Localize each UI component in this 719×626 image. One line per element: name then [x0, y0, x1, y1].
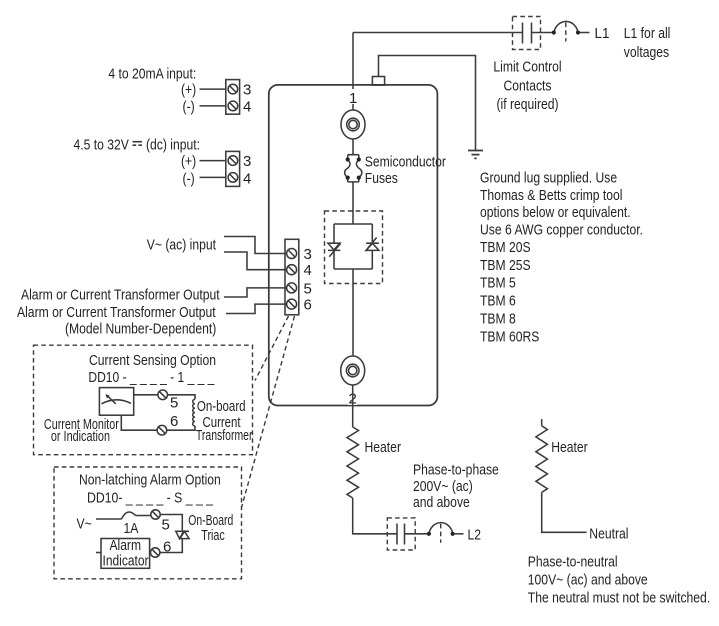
screw 6 [287, 299, 297, 309]
wire screw5 to triac [160, 515, 182, 532]
svg-text:Fuses: Fuses [365, 170, 398, 187]
svg-text:Heater: Heater [365, 439, 402, 456]
wire fuses to SCR [352, 182, 354, 224]
svg-text:DD10- _ _ _ _ - S _ _ _: DD10- _ _ _ _ - S _ _ _ [87, 490, 214, 507]
wire screw5 to coil [168, 395, 196, 400]
wire fuse to screw5 [136, 515, 151, 517]
svg-text:(+): (+) [181, 153, 196, 170]
wire output to screw5 [224, 288, 287, 297]
right heater stub [541, 419, 543, 426]
wire to L1 [580, 32, 590, 34]
contact plates [511, 23, 553, 44]
svg-text:TBM 6: TBM 6 [480, 293, 516, 310]
meter arc [102, 400, 132, 404]
svg-text:L1: L1 [595, 25, 610, 42]
input block 1 [226, 80, 240, 115]
wire heater to L2 contact [353, 498, 388, 534]
semiconductor fuses [345, 155, 362, 182]
wire L1 top [353, 33, 511, 111]
input block 2 [226, 151, 240, 186]
terminal 2 label [348, 391, 357, 405]
dashed leader to current sensing box [255, 316, 289, 381]
svg-text:Semiconductor: Semiconductor [365, 153, 446, 170]
node dot [552, 30, 556, 34]
fuse 1A [122, 512, 136, 519]
svg-text:3: 3 [243, 153, 251, 170]
ground tab on box [372, 77, 384, 86]
svg-text:options below or equivalent.: options below or equivalent. [480, 204, 631, 221]
svg-text:Alarm: Alarm [110, 537, 142, 554]
svg-text:(-): (-) [183, 98, 195, 115]
wire to L2 [455, 533, 464, 535]
svg-text:4 to 20mA input:: 4 to 20mA input: [108, 66, 196, 83]
svg-text:Phase-to-phase: Phase-to-phase [413, 462, 499, 479]
svg-text:(-): (-) [183, 170, 195, 187]
svg-text:DD10 - _ _ _ _ - 1 _ _ _: DD10 - _ _ _ _ - 1 _ _ _ [88, 369, 215, 386]
dashed leader to alarm box [242, 316, 295, 508]
svg-text:4.5 to 32V: 4.5 to 32V [74, 137, 129, 154]
meter box [99, 388, 133, 416]
svg-text:TBM 5: TBM 5 [480, 275, 516, 292]
screw 3 [287, 249, 297, 259]
wire V~ to screw4 [224, 252, 287, 270]
SCR right (up) [365, 238, 379, 252]
screw 5 [287, 283, 297, 293]
svg-text:Use 6 AWG copper conductor.: Use 6 AWG copper conductor. [480, 222, 643, 239]
right heater zigzag [536, 426, 548, 493]
svg-text:Current Sensing Option: Current Sensing Option [89, 352, 216, 369]
wire meter to screw5 [134, 394, 158, 396]
wire V~ to fuse [96, 518, 122, 520]
terminal 2 lug [341, 356, 365, 385]
svg-text:TBM 25S: TBM 25S [480, 257, 531, 274]
current sensing option dashed box [34, 345, 253, 455]
svg-text:4: 4 [243, 170, 251, 187]
non-latching alarm option dashed box [54, 467, 242, 579]
svg-text:(dc) input:: (dc) input: [146, 137, 200, 154]
breaker dashed lever [565, 23, 567, 42]
SCR dashed box [325, 211, 383, 284]
main controller box [269, 85, 438, 406]
wire screw6 to meter [121, 415, 157, 430]
alarm indicator box [101, 539, 150, 569]
svg-text:(Model Number-Dependent): (Model Number-Dependent) [65, 321, 216, 338]
node dot [576, 30, 580, 34]
svg-text:Alarm or Current Transformer O: Alarm or Current Transformer Output [21, 287, 220, 304]
svg-text:5: 5 [170, 394, 178, 411]
L2 contact plates [387, 524, 428, 545]
L2 breaker arc [429, 523, 453, 534]
wire coil to screw6 [167, 426, 195, 430]
coil on-board CT [193, 399, 195, 426]
svg-text:Transformer: Transformer [196, 427, 253, 444]
wire term1 to fuses [352, 139, 354, 155]
svg-text:200V~ (ac): 200V~ (ac) [413, 478, 473, 495]
svg-text:Triac: Triac [201, 527, 225, 544]
svg-text:Heater: Heater [551, 439, 588, 456]
breaker arc L1 [554, 21, 578, 32]
svg-text:TBM 8: TBM 8 [480, 311, 516, 328]
svg-text:TBM 20S: TBM 20S [480, 239, 531, 256]
SCR left (down) [328, 243, 341, 257]
left heater zigzag [347, 427, 359, 498]
svg-text:On-board: On-board [197, 398, 246, 415]
wires block1 [200, 89, 226, 106]
svg-text:5: 5 [162, 517, 170, 534]
L2 contact dashed box [387, 518, 415, 550]
svg-text:3: 3 [304, 246, 312, 263]
svg-text:L2: L2 [468, 526, 482, 543]
svg-text:Ground lug supplied. Use: Ground lug supplied. Use [480, 170, 617, 187]
wire heater to neutral [542, 492, 587, 532]
ground wire [379, 56, 476, 151]
svg-text:Limit Control: Limit Control [493, 59, 561, 76]
wire output to screw6 [226, 304, 287, 313]
svg-text:L1 for all: L1 for all [624, 25, 671, 42]
svg-text:6: 6 [304, 297, 312, 314]
svg-text:or Indication: or Indication [51, 428, 110, 445]
svg-text:Neutral: Neutral [589, 526, 628, 543]
svg-text:6: 6 [163, 539, 171, 556]
svg-text:(if required): (if required) [497, 96, 559, 113]
wire term2 to heater [352, 385, 354, 427]
svg-text:The neutral must not be switch: The neutral must not be switched. [528, 590, 710, 607]
meter needle [107, 396, 116, 404]
svg-text:100V~ (ac) and above: 100V~ (ac) and above [528, 572, 648, 589]
dc symbol [133, 142, 143, 146]
terminal 1 label [348, 89, 357, 104]
svg-text:voltages: voltages [624, 44, 669, 61]
svg-text:1: 1 [349, 90, 357, 107]
terminal block 3-6 [285, 239, 299, 314]
SCR bridge rect [334, 224, 372, 269]
svg-text:and above: and above [413, 494, 470, 511]
svg-text:Non-latching Alarm Option: Non-latching Alarm Option [79, 472, 221, 489]
svg-text:TBM 60RS: TBM 60RS [480, 329, 539, 346]
svg-text:V~: V~ [77, 516, 92, 533]
svg-text:4: 4 [243, 98, 251, 115]
cs screw 6 [157, 425, 167, 435]
wire triac to screw6 [160, 539, 182, 553]
ground symbol [468, 151, 483, 159]
svg-text:3: 3 [243, 82, 251, 99]
svg-text:Alarm or Current Transformer O: Alarm or Current Transformer Output [17, 304, 216, 321]
wire V~ to screw3 [224, 237, 287, 254]
cs screw 5 [158, 390, 168, 400]
alarm screw 6 [151, 548, 160, 557]
svg-text:V~ (ac) input: V~ (ac) input [147, 237, 217, 254]
svg-text:Contacts: Contacts [504, 78, 552, 95]
svg-text:(+): (+) [181, 82, 196, 99]
svg-text:Indicator: Indicator [103, 553, 149, 570]
on-board triac [175, 531, 189, 538]
terminal 1 lug [341, 110, 365, 139]
alarm screw 5 [151, 510, 160, 519]
limit control contacts dashed box [513, 17, 541, 50]
wires block2 [200, 161, 226, 178]
svg-text:6: 6 [170, 413, 178, 430]
svg-text:Phase-to-neutral: Phase-to-neutral [528, 554, 618, 571]
stub wire left of alarm indicator [96, 552, 101, 554]
svg-text:Thomas & Betts crimp tool: Thomas & Betts crimp tool [480, 187, 623, 204]
svg-text:4: 4 [304, 262, 312, 279]
screw 4 [287, 265, 297, 275]
svg-text:1A: 1A [124, 520, 139, 537]
wire SCR to term2 [352, 269, 354, 356]
svg-text:5: 5 [304, 280, 312, 297]
